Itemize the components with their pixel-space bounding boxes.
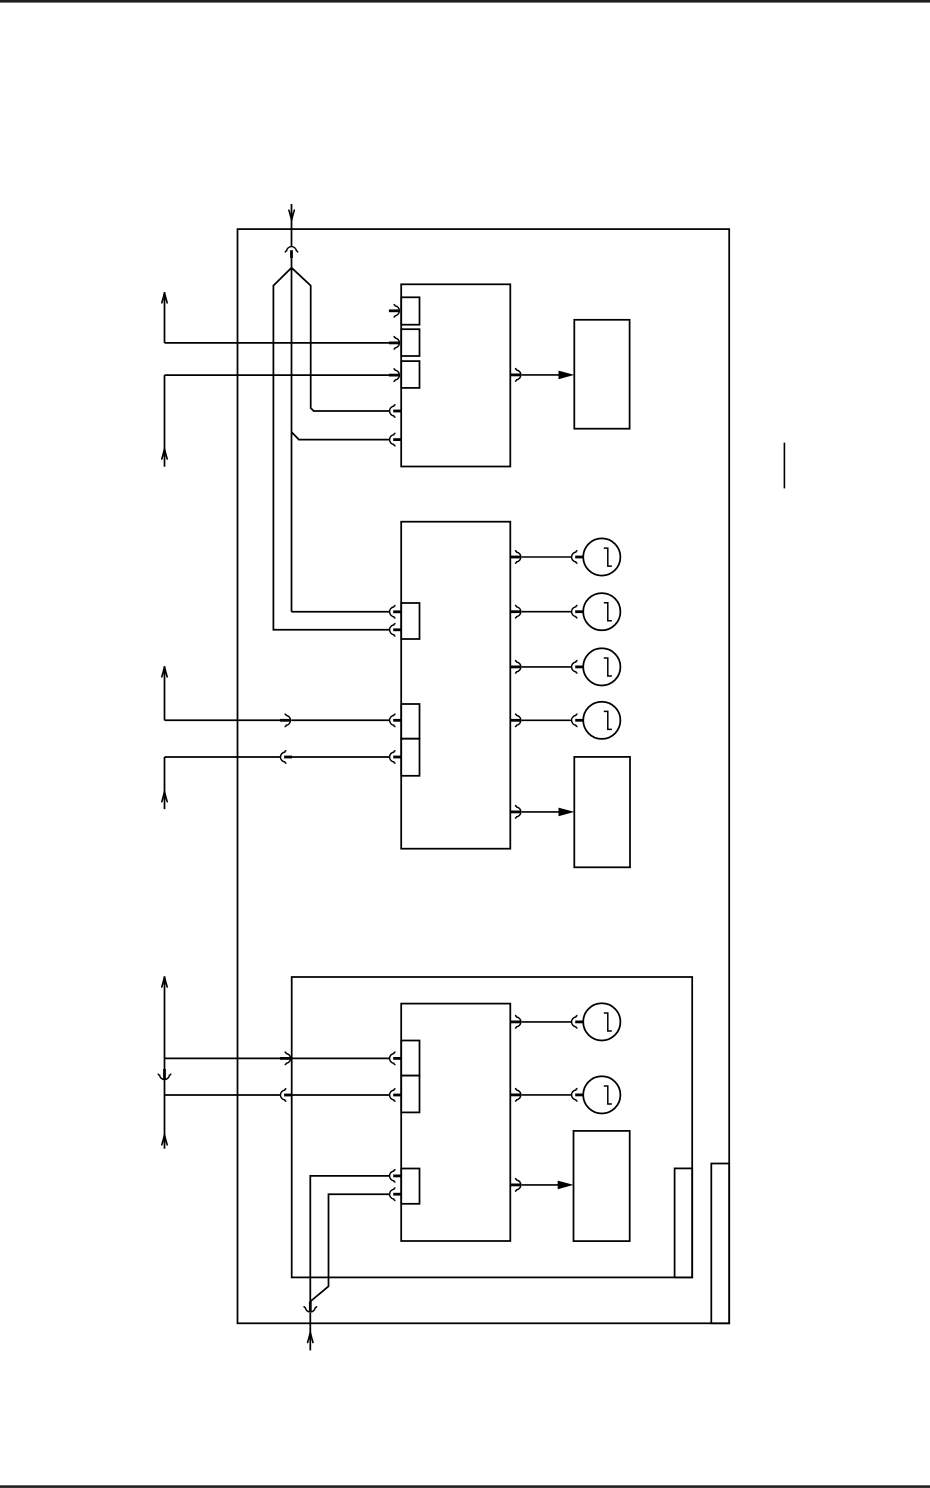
- connector strip rect on inner box right edge: [675, 1168, 693, 1277]
- connector at U2 port A upper: [390, 605, 402, 618]
- U2 port rect A: [401, 603, 419, 639]
- load box R2: [574, 757, 630, 867]
- exit wire with arrow: [308, 1313, 313, 1350]
- shield peak wire: [291, 258, 293, 612]
- riser arrow up from U2 port B wire: [162, 666, 167, 720]
- U3 port rect F: [401, 1169, 419, 1204]
- wire to U2 port B: [165, 719, 281, 721]
- inner enclosure box (lower unit): [292, 977, 693, 1277]
- U1 port rect 2: [401, 329, 419, 356]
- connector at U3 port F upper: [390, 1170, 402, 1183]
- riser arrow up from U1 port2 wire: [162, 292, 167, 343]
- wire branch to U1 port 5: [292, 432, 390, 440]
- exit connector at bottom: [304, 1302, 317, 1313]
- outer enclosure box: [238, 229, 730, 1323]
- block U3 (lower control unit): [401, 1004, 510, 1241]
- riser arrow down from U1 port3 wire: [162, 375, 167, 467]
- U2 output arrowhead: [559, 808, 575, 817]
- connector stub at U1 port 1: [389, 304, 400, 317]
- U2 lamp wire 2: [510, 605, 583, 618]
- U2 port rect C: [401, 739, 419, 776]
- inline connector on U2 port B wire: [280, 714, 291, 727]
- lamp L5: [583, 1003, 620, 1040]
- inline connector on U3 port D wire: [280, 1052, 291, 1065]
- load box R1: [574, 320, 629, 429]
- U3 lamp wire 1: [510, 1016, 583, 1029]
- connector at U1 port 2: [389, 337, 400, 350]
- connector at U1 port 4: [390, 405, 402, 418]
- inline connector on U2 port C wire: [280, 751, 292, 764]
- connector at U3 port E: [390, 1089, 402, 1102]
- wire to U1 port 2: [165, 342, 389, 344]
- block U1 (top control unit): [401, 284, 510, 466]
- U2 port rect B: [401, 704, 419, 739]
- wire from U3 port F upper down: [310, 1176, 389, 1302]
- wire to U3 port E: [165, 1094, 281, 1096]
- lamp L4: [583, 702, 620, 739]
- U2 output connector: [510, 806, 521, 819]
- riser arrow down from U2 port C wire: [162, 757, 167, 809]
- wire continuation to U2 port C: [292, 756, 389, 758]
- connector at U2 port A lower: [390, 623, 402, 636]
- lamp L6: [583, 1076, 620, 1113]
- wire to U1 port 3: [165, 374, 389, 376]
- drop connector between lower wires: [158, 1058, 171, 1095]
- block U2 (middle control unit): [401, 522, 510, 849]
- load box R3: [574, 1131, 630, 1241]
- U3 port rect D: [401, 1041, 419, 1076]
- wire to U3 port D: [165, 1057, 281, 1059]
- top entry arrow: [289, 210, 294, 221]
- connector at U2 port B: [390, 714, 402, 727]
- riser arrow below U3 port E wire: [162, 1095, 167, 1149]
- wire continuation to U2 port B: [291, 719, 389, 721]
- page header bar: [0, 0, 930, 3]
- wire from U3 port F lower down: [310, 1194, 389, 1301]
- shield right wire to U1 port 4: [292, 268, 390, 411]
- wire to U2 port C: [165, 756, 281, 758]
- lamp L2: [583, 593, 620, 630]
- wire continuation to U3 port D: [291, 1057, 389, 1059]
- U1 output wire: [522, 374, 559, 376]
- connector at U1 port 5: [390, 433, 402, 446]
- U3 output arrowhead: [558, 1181, 574, 1190]
- U3 port rect E: [401, 1076, 419, 1113]
- connector at U3 port F lower: [390, 1188, 402, 1201]
- top entry wire: [291, 204, 293, 247]
- U3 output connector: [510, 1179, 521, 1192]
- connector at U2 port C: [390, 751, 402, 764]
- U2 output wire: [522, 811, 559, 813]
- inline connector on U3 port E wire: [280, 1089, 292, 1102]
- U1 output connector: [510, 369, 521, 382]
- wire center to U2 port A upper: [292, 611, 390, 613]
- lamp L1: [583, 538, 620, 575]
- page footer rule: [0, 1485, 930, 1488]
- U3 lamp wire 2: [510, 1089, 583, 1102]
- U1 output arrowhead: [559, 371, 575, 380]
- shield left wire to U2 port A lower: [273, 268, 389, 630]
- connector at U3 port D: [390, 1052, 402, 1065]
- short reference line at right: [783, 443, 785, 489]
- U2 lamp wire 1: [510, 551, 583, 564]
- riser arrow up into lower section: [162, 976, 167, 1058]
- connector strip rect on outer box right edge: [711, 1164, 729, 1324]
- lamp L3: [583, 648, 620, 685]
- U2 lamp wire 3: [510, 661, 583, 674]
- U2 lamp wire 4: [510, 714, 583, 727]
- U3 output wire: [522, 1184, 558, 1186]
- U1 port rect 3: [401, 361, 419, 388]
- U1 port rect 1: [401, 297, 419, 324]
- wire continuation to U3 port E: [292, 1094, 389, 1096]
- connector at U1 port 3: [389, 369, 400, 382]
- top entry connector: [285, 247, 298, 259]
